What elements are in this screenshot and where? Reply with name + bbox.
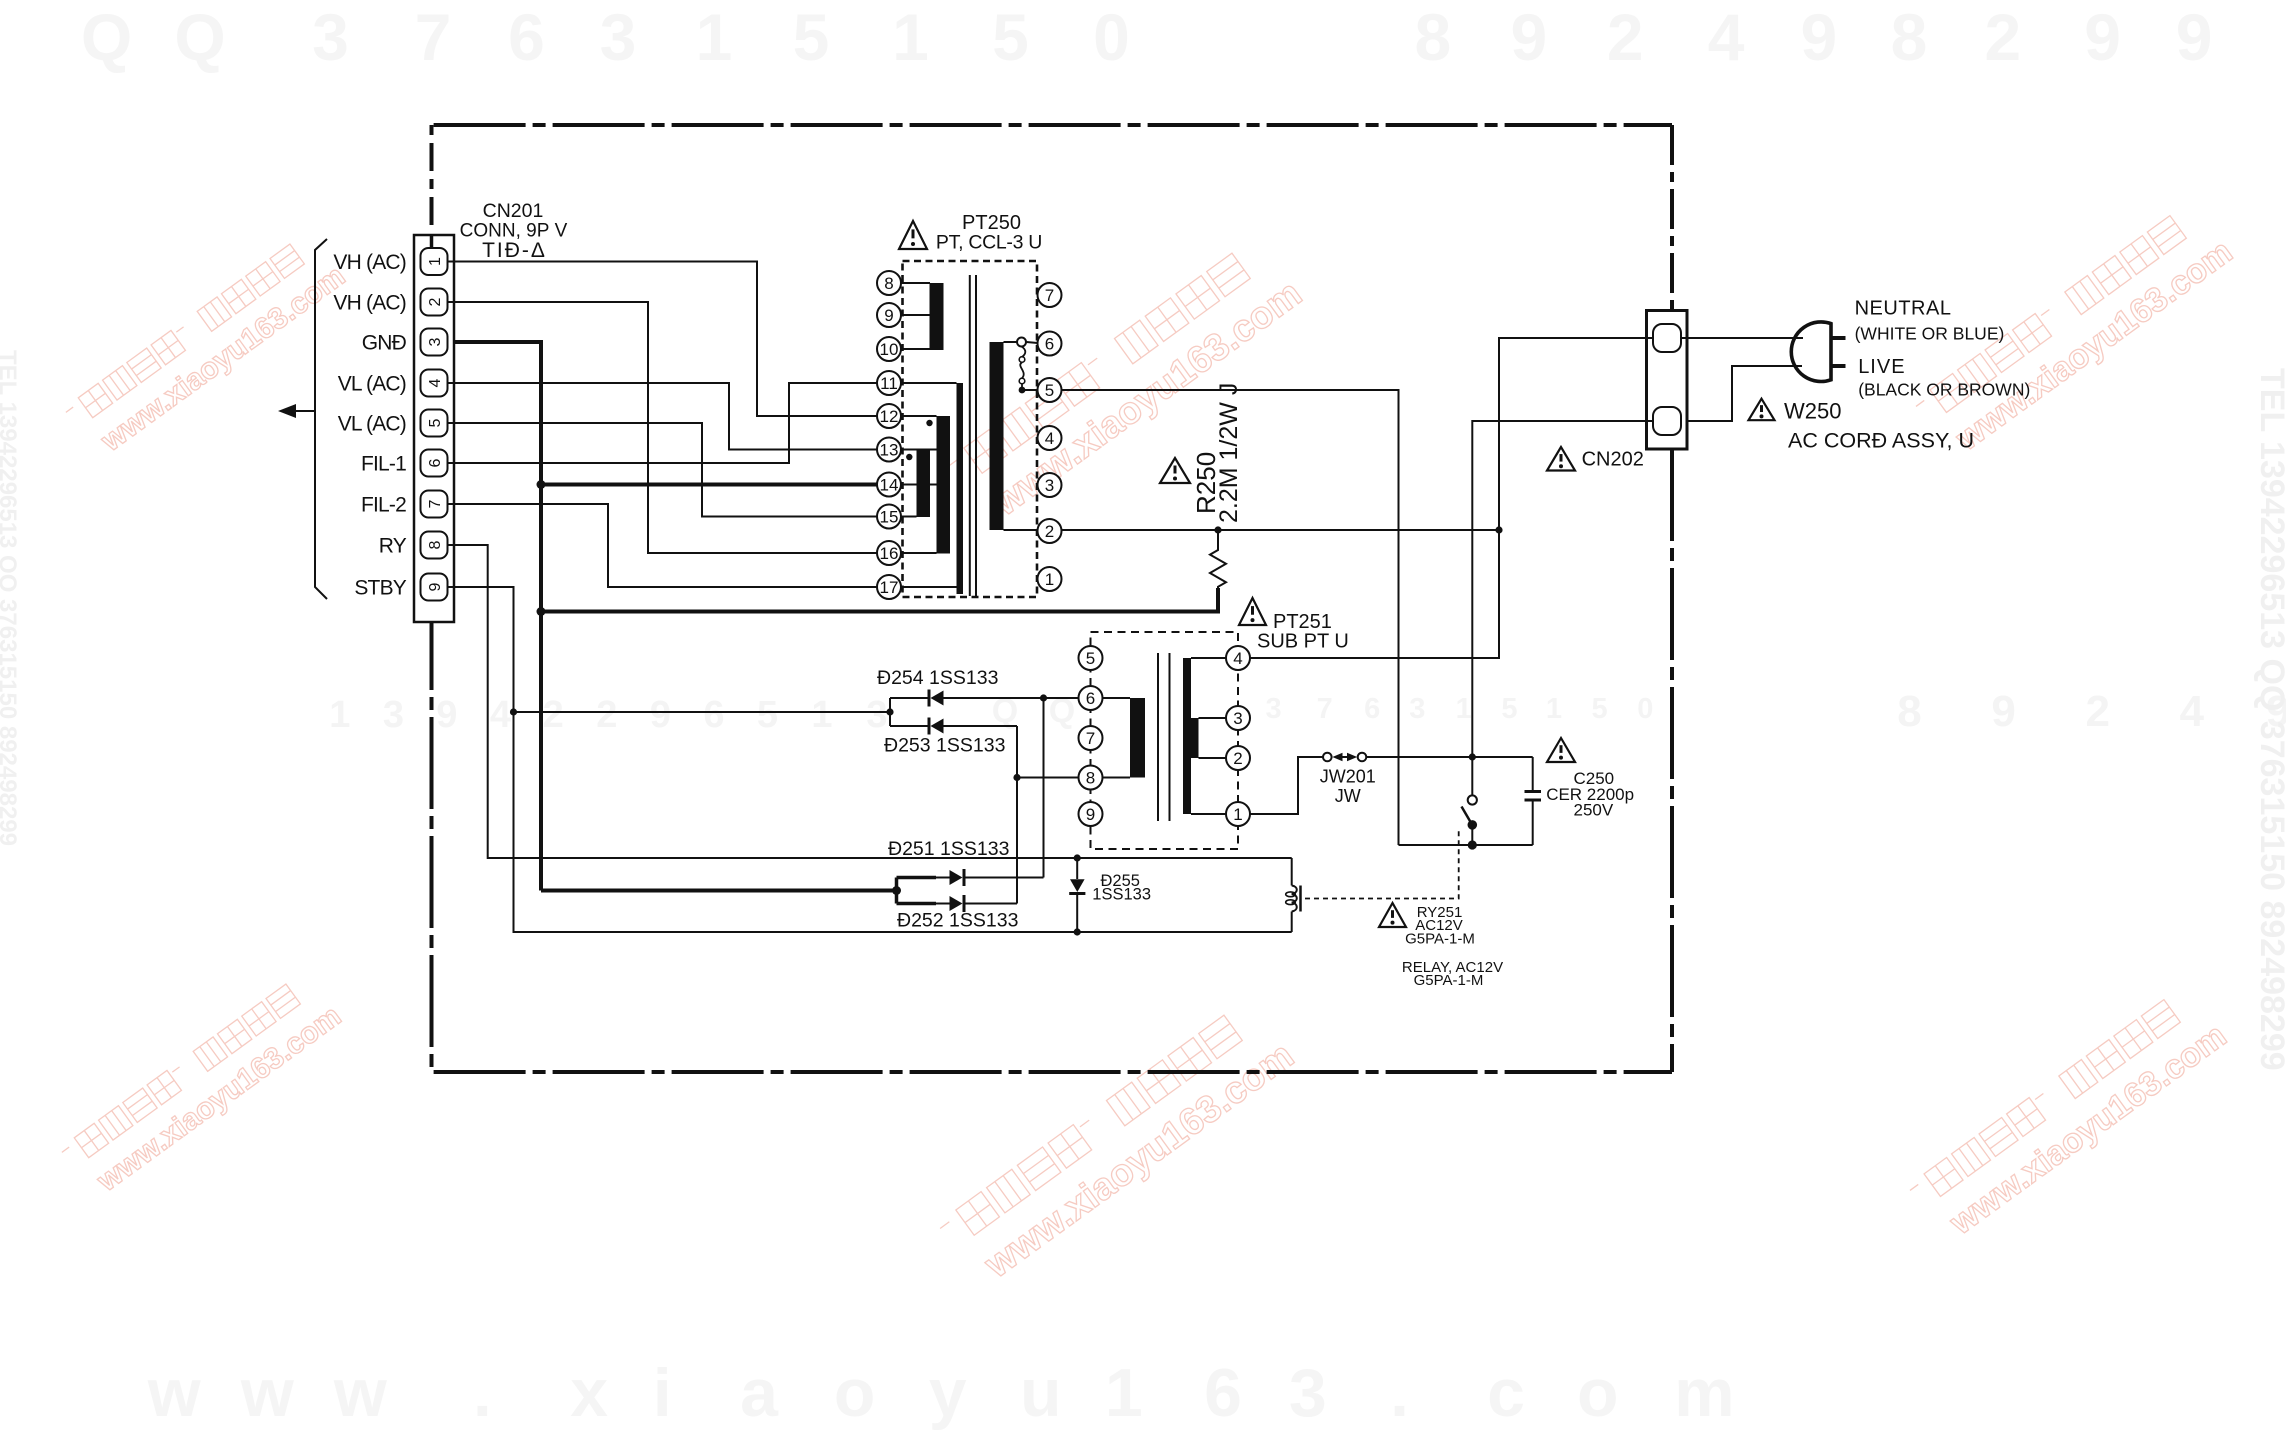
svg-text:6: 6 <box>427 458 444 467</box>
R250 warning triangle <box>1160 458 1190 483</box>
svg-text:Đ254 1SS133: Đ254 1SS133 <box>877 667 998 689</box>
svg-text:6: 6 <box>1045 335 1054 354</box>
svg-text:9: 9 <box>2176 0 2213 74</box>
svg-text:3: 3 <box>866 694 887 736</box>
svg-text:7: 7 <box>415 0 452 74</box>
svg-text:3: 3 <box>1045 476 1054 495</box>
svg-text:2: 2 <box>1233 749 1242 768</box>
PT251 winding bars <box>1130 658 1199 814</box>
PT250 pin2 stub <box>1004 529 1038 531</box>
D255 label <box>1092 872 1151 904</box>
svg-text:5: 5 <box>1501 693 1517 725</box>
svg-text:8: 8 <box>1414 0 1451 74</box>
PT251 warning triangle <box>1239 598 1266 625</box>
svg-text:3: 3 <box>1266 693 1282 725</box>
svg-text:SUB PT U: SUB PT U <box>1257 631 1349 653</box>
wire PT250 pin5 to switch rail <box>1062 390 1399 845</box>
svg-text:9: 9 <box>1511 0 1548 74</box>
wire live: plug to CN202 <box>1687 366 1802 421</box>
svg-text:2: 2 <box>427 297 444 306</box>
AC plug W250 <box>1791 322 1845 382</box>
svg-text:Q: Q <box>174 0 225 74</box>
svg-text:CN202: CN202 <box>1582 449 1644 471</box>
svg-text:Đ253 1SS133: Đ253 1SS133 <box>884 735 1005 757</box>
svg-text:y: y <box>929 1355 967 1431</box>
diode D254 1SS133 <box>890 690 1079 707</box>
node D254 anode to PT251 pin6 and D251 <box>1040 694 1047 877</box>
switch bottom rail <box>1399 844 1533 846</box>
svg-text:Q: Q <box>81 0 132 74</box>
svg-text:6: 6 <box>1204 1355 1242 1431</box>
CN201 pin name labels <box>333 251 406 600</box>
svg-text:8: 8 <box>884 274 893 293</box>
svg-text:7: 7 <box>427 499 444 508</box>
harness bracket <box>315 239 327 599</box>
wire STBY branch to diode bracket <box>510 708 890 715</box>
svg-text:c: c <box>1487 1355 1525 1431</box>
PT250 warning triangle <box>899 221 927 249</box>
svg-text:Đ252 1SS133: Đ252 1SS133 <box>897 910 1018 932</box>
svg-text:14: 14 <box>880 476 899 495</box>
svg-text:0: 0 <box>1637 693 1653 725</box>
svg-text:6: 6 <box>508 0 545 74</box>
jumper JW201 <box>1323 753 1366 762</box>
wire PT250 pin2 to CN202 node <box>1062 526 1503 533</box>
svg-text:NEUTRAL: NEUTRAL <box>1855 298 1952 320</box>
PT250 polarity dots <box>906 420 933 460</box>
wire PT251 pin1 to jumper <box>1250 757 1323 814</box>
svg-text:3: 3 <box>1233 709 1242 728</box>
wire pin4 to PT250 pin13 <box>448 383 877 450</box>
svg-text:G5PA-1-M: G5PA-1-M <box>1405 931 1475 948</box>
svg-text:x: x <box>570 1355 608 1431</box>
svg-text:VH (AC): VH (AC) <box>333 292 406 315</box>
transformer PT250 dashed box <box>903 261 1038 597</box>
svg-text:4: 4 <box>1233 649 1242 668</box>
svg-text:1: 1 <box>329 694 350 736</box>
connector CN201 <box>414 235 454 622</box>
relay dashed actuator link <box>1305 829 1459 899</box>
svg-text:4: 4 <box>490 694 511 736</box>
svg-text:(WHITE OR BLUE): (WHITE OR BLUE) <box>1855 324 2005 344</box>
svg-text:Đ251 1SS133: Đ251 1SS133 <box>888 838 1009 860</box>
svg-text:1: 1 <box>1546 693 1562 725</box>
connector CN202 <box>1647 311 1688 450</box>
svg-text:9: 9 <box>2084 0 2121 74</box>
svg-text:2.2M 1/2W J: 2.2M 1/2W J <box>1215 383 1243 523</box>
svg-text:1SS133: 1SS133 <box>1092 886 1151 904</box>
RY251 labels <box>1402 904 1503 989</box>
wire pin8 (RY) to relay rail <box>448 545 1292 858</box>
wire pin9 (STBY) to bottom rail <box>448 587 1292 932</box>
svg-text:1: 1 <box>1045 570 1054 589</box>
svg-text:7: 7 <box>1045 286 1054 305</box>
svg-text:o: o <box>834 1355 876 1431</box>
svg-text:1: 1 <box>1456 693 1472 725</box>
svg-text:6: 6 <box>1364 693 1380 725</box>
W250 warning triangle <box>1749 399 1775 421</box>
PT250 right pins <box>1038 283 1062 591</box>
svg-text:13: 13 <box>880 441 899 460</box>
svg-text:(BLACK OR BROWN): (BLACK OR BROWN) <box>1858 380 2030 400</box>
node D253 anode to PT251 pin8 and D252 <box>1013 726 1078 904</box>
svg-text:2: 2 <box>1607 0 1644 74</box>
svg-text:5: 5 <box>992 0 1029 74</box>
svg-text:5: 5 <box>757 694 778 736</box>
thick GND wire pin3 <box>454 342 541 891</box>
svg-text:0: 0 <box>1093 0 1130 74</box>
svg-text:7: 7 <box>1317 693 1333 725</box>
svg-text:9: 9 <box>1991 687 2015 736</box>
PT250 core lines <box>970 275 976 596</box>
svg-text:w: w <box>147 1355 202 1431</box>
wire PT251 pin4 to CN202 node <box>1250 530 1499 658</box>
svg-text:JW201: JW201 <box>1320 767 1376 787</box>
svg-text:LIVE: LIVE <box>1858 356 1905 378</box>
svg-text:w: w <box>333 1355 388 1431</box>
wire jumper to C250 node <box>1366 753 1532 760</box>
C250 warning triangle <box>1547 738 1575 762</box>
svg-text:3: 3 <box>600 0 637 74</box>
svg-text:250V: 250V <box>1574 801 1614 820</box>
svg-text:3: 3 <box>383 694 404 736</box>
svg-text:15: 15 <box>880 508 899 527</box>
PT250 winding bars <box>917 283 1004 594</box>
svg-text:8: 8 <box>1086 769 1095 788</box>
svg-text:4: 4 <box>1045 429 1054 448</box>
svg-text:m: m <box>1674 1355 1734 1431</box>
PT251 pin stubs <box>1103 658 1227 814</box>
svg-text:5: 5 <box>1045 381 1054 400</box>
svg-text:5: 5 <box>793 0 830 74</box>
svg-text:9: 9 <box>1086 805 1095 824</box>
PT250 pin stubs left <box>901 283 957 587</box>
svg-text:8: 8 <box>1897 687 1921 736</box>
svg-text:10: 10 <box>880 340 899 359</box>
off-page arrow <box>278 404 315 418</box>
svg-text:PT, CCL-3 U: PT, CCL-3 U <box>936 232 1042 254</box>
svg-text:W250: W250 <box>1784 399 1841 424</box>
thick GND feed to bracket <box>541 889 897 893</box>
svg-text:o: o <box>1577 1355 1619 1431</box>
svg-text:i: i <box>653 1355 672 1431</box>
svg-text:5: 5 <box>427 418 444 427</box>
diode D253 1SS133 <box>890 718 1017 735</box>
svg-text:1: 1 <box>1233 805 1242 824</box>
wire CN202 lower pin left branch <box>1472 421 1653 757</box>
svg-text:9: 9 <box>436 694 457 736</box>
svg-text:4: 4 <box>1708 0 1745 74</box>
PT250 left pins <box>877 271 901 599</box>
svg-text:2: 2 <box>2085 687 2109 736</box>
PT251 title <box>1257 611 1349 653</box>
svg-text:9: 9 <box>884 306 893 325</box>
svg-text:6: 6 <box>703 694 724 736</box>
svg-text:VH (AC): VH (AC) <box>333 251 406 274</box>
diode D251 1SS133 <box>897 869 1044 886</box>
svg-text:1: 1 <box>811 694 832 736</box>
thick GND horizontal to R250 <box>537 607 1220 616</box>
wire pin6 to PT250 pin11 <box>448 383 877 463</box>
wire pin2 to PT250 pin16 <box>448 302 877 553</box>
svg-text:16: 16 <box>880 544 899 563</box>
svg-text:GNĐ: GNĐ <box>362 332 407 355</box>
relay RY251 coil <box>1286 858 1301 932</box>
PT250 title <box>936 212 1042 254</box>
svg-text:3: 3 <box>427 337 444 346</box>
svg-text:G5PA-1-M: G5PA-1-M <box>1414 972 1484 989</box>
RY251 warning triangle <box>1379 903 1406 927</box>
svg-text:VL (AC): VL (AC) <box>338 373 406 396</box>
svg-text:FIL-1: FIL-1 <box>361 453 406 476</box>
svg-text:RY: RY <box>379 535 407 558</box>
CN201 title labels <box>460 200 568 262</box>
svg-text:TEL 13942296513 QQ 376315150 8: TEL 13942296513 QQ 376315150 892498299 <box>0 350 21 846</box>
thick wire to PT250 pin14 <box>537 480 878 489</box>
wire CN202 upper pin left branch <box>1499 338 1653 658</box>
wire neutral: CN202 to plug <box>1681 337 1803 339</box>
C250 labels <box>1546 769 1634 820</box>
svg-text:9: 9 <box>1800 0 1837 74</box>
svg-text:JW: JW <box>1335 786 1361 806</box>
plug labels <box>1855 298 2031 400</box>
svg-text:u: u <box>1020 1355 1062 1431</box>
svg-text:3: 3 <box>1409 693 1425 725</box>
svg-text:5: 5 <box>1592 693 1608 725</box>
resistor R250 <box>1210 526 1226 613</box>
relay switch contact <box>1462 757 1478 850</box>
diode D255 1SS133 <box>1069 854 1085 935</box>
svg-text:8: 8 <box>427 540 444 549</box>
svg-text:12: 12 <box>880 407 899 426</box>
PT251 right pins <box>1226 646 1250 826</box>
svg-text:2: 2 <box>1985 0 2022 74</box>
svg-text:3: 3 <box>312 0 349 74</box>
svg-text:9: 9 <box>427 582 444 591</box>
PT251 core lines <box>1158 653 1170 821</box>
svg-text:VL (AC): VL (AC) <box>338 413 406 436</box>
svg-text:17: 17 <box>880 578 899 597</box>
bracket D254/D253 cathodes <box>886 698 893 726</box>
PT250 secondary tap to pin6/pin5 <box>1004 338 1038 394</box>
bracket D251/D252 anodes <box>892 878 901 904</box>
CN202 warning triangle <box>1547 447 1575 471</box>
svg-text:2: 2 <box>1045 522 1054 541</box>
svg-text:2: 2 <box>596 694 617 736</box>
svg-text:3: 3 <box>1289 1355 1327 1431</box>
svg-text:4: 4 <box>2180 687 2205 736</box>
wire pin5 to PT250 pin15 <box>448 423 877 517</box>
wire pin7 to PT250 pin17 <box>448 504 877 587</box>
capacitor C250 <box>1525 757 1542 845</box>
svg-text:w: w <box>240 1355 295 1431</box>
svg-text:1: 1 <box>696 0 733 74</box>
diode D252 1SS133 <box>897 895 1018 912</box>
svg-text:1: 1 <box>427 257 444 266</box>
svg-text:7: 7 <box>1086 729 1095 748</box>
svg-text:1: 1 <box>1105 1355 1143 1431</box>
svg-text:a: a <box>740 1355 779 1431</box>
svg-text:11: 11 <box>880 374 898 393</box>
svg-text:AC CORĐ ASSY, U: AC CORĐ ASSY, U <box>1788 429 1974 453</box>
svg-text:2: 2 <box>543 694 564 736</box>
PT251 left pins <box>1079 646 1103 826</box>
svg-text:4: 4 <box>427 378 444 387</box>
wire pin1 to PT250 pin12 <box>448 262 877 417</box>
svg-text:.: . <box>1390 1355 1409 1431</box>
svg-text:6: 6 <box>1086 689 1095 708</box>
svg-text:5: 5 <box>1086 649 1095 668</box>
svg-text:.: . <box>473 1355 492 1431</box>
svg-text:STBY: STBY <box>354 577 406 600</box>
transformer PT251 dashed box <box>1091 632 1239 849</box>
svg-text:TEL 13942296513 QQ 376315150 8: TEL 13942296513 QQ 376315150 892498299 <box>2253 368 2286 1071</box>
svg-text:8: 8 <box>1891 0 1928 74</box>
svg-text:9: 9 <box>650 694 671 736</box>
svg-text:1: 1 <box>892 0 929 74</box>
R250 value labels <box>1191 383 1243 523</box>
svg-text:TIĐ-Δ: TIĐ-Δ <box>482 239 547 262</box>
JW201 labels <box>1320 767 1376 807</box>
svg-text:CN201: CN201 <box>483 200 544 222</box>
svg-text:FIL-2: FIL-2 <box>361 494 406 517</box>
